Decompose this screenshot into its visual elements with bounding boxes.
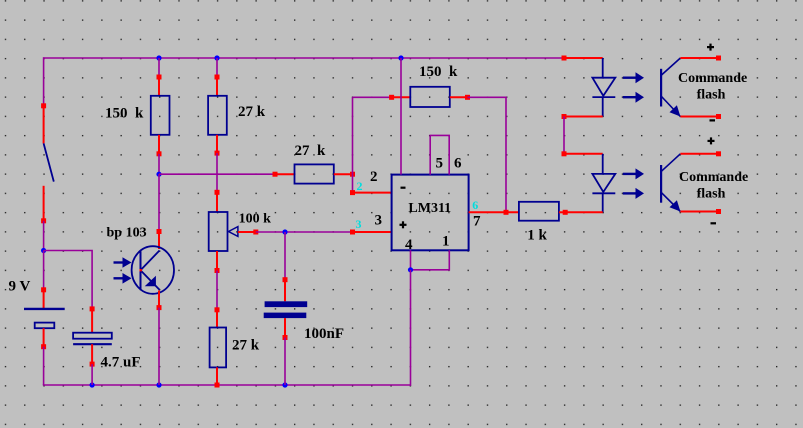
pin resistor 27k top <box>215 75 220 80</box>
switch S1 blade <box>44 143 54 181</box>
node junction collector / divider row <box>156 172 161 177</box>
pin resistor 150k top <box>157 75 162 80</box>
wire LED1 cathode lead <box>564 116 603 118</box>
wire ground column to bottom rail <box>410 270 412 386</box>
wire potentiometer top lead <box>216 192 218 212</box>
wire feedback row to 150k <box>353 96 392 98</box>
wire 27k mid right lead <box>334 173 353 175</box>
wire lower 27k bottom lead <box>216 367 218 385</box>
wire LM311 pin 8 supply stub <box>400 58 402 175</box>
wire collector node down <box>158 174 160 231</box>
resistor R4 27k mid body <box>295 164 334 183</box>
wire pin2 net vertical <box>352 97 354 192</box>
pin switch bottom <box>41 218 46 223</box>
pin resistor 27k mid right <box>350 172 355 177</box>
svg-text:Commande: Commande <box>678 71 747 86</box>
pin phototransistor emitter <box>157 305 162 310</box>
wire LED1 anode lead <box>564 57 603 59</box>
diode LED2 cathode bar <box>592 192 615 194</box>
transistor opto1 emitter stroke <box>662 97 681 117</box>
transistor opto2 base bar <box>660 165 662 203</box>
resistor R1 150k body <box>151 96 170 135</box>
wire LED2 anode lead <box>564 153 603 155</box>
wire 150k bottom lead <box>158 135 160 154</box>
svg-text:27 k: 27 k <box>238 104 266 120</box>
pin battery plus <box>41 287 46 292</box>
svg-text:3: 3 <box>375 213 383 229</box>
pin inverting input node <box>350 190 355 195</box>
wire 150k top lead <box>158 77 160 96</box>
pin resistor 150k bottom <box>157 151 162 156</box>
pin non-inverting input node <box>350 230 355 235</box>
svg-text:100nF: 100nF <box>304 326 344 342</box>
diode LED1 triangle <box>592 78 615 96</box>
wire 27k bottom lead <box>216 135 218 153</box>
wire 100nF column upper <box>284 232 286 280</box>
op-amp U1 minus mark <box>401 187 406 189</box>
wire switch top lead <box>43 106 45 144</box>
wire LM311 pin 3 lead <box>353 231 392 233</box>
transistor Q1 collector stroke <box>141 251 160 271</box>
pin capacitor 100nF top <box>283 277 288 282</box>
svg-text:150 k: 150 k <box>105 106 144 122</box>
pin resistor 1k right <box>563 210 568 215</box>
pin resistor 150k fb right <box>465 95 470 100</box>
svg-text:27 k: 27 k <box>295 143 327 159</box>
wire 4.7uF to bottom rail <box>91 364 93 385</box>
wire top supply rail <box>44 57 564 59</box>
wire node to battery plus <box>43 251 45 290</box>
light arrow upper into bp103 <box>114 261 124 263</box>
svg-text:1 k: 1 k <box>527 228 547 244</box>
svg-text:flash: flash <box>697 187 726 202</box>
wire LED1 to LED2 <box>563 117 565 154</box>
node junction non-inverting / 100nF <box>282 229 287 234</box>
capacitor C2 100nF plate top <box>265 301 308 307</box>
resistor R2 27k body <box>208 96 227 135</box>
battery B1 9V plate short <box>35 323 55 329</box>
wire left rail upper <box>43 57 45 106</box>
transistor opto2 collector stroke <box>662 154 681 171</box>
svg-text:1: 1 <box>442 234 450 250</box>
node junction pin4 / pin1 ground <box>408 267 413 272</box>
wire battery node to 4.7uF column <box>44 251 93 309</box>
wire inverting row from collector node <box>159 173 275 175</box>
wire LM311 output pin 7 <box>469 211 519 213</box>
wire emitter to bottom rail <box>158 308 160 385</box>
svg-text:9 V: 9 V <box>9 279 31 295</box>
wire 150k to collector node <box>158 154 160 174</box>
transistor Q1 emitter stroke <box>141 270 160 290</box>
wire switch bottom lead <box>43 186 45 221</box>
wire 100nF to bottom rail <box>284 338 286 386</box>
polarity label plus opto1 <box>707 46 714 48</box>
wire potentiometer bottom lead <box>216 251 218 271</box>
svg-text:3: 3 <box>356 217 362 231</box>
pin opto2 collector plus <box>716 151 721 156</box>
pin resistor 27k bottom <box>215 151 220 156</box>
wire 4.7uF top lead <box>91 309 93 333</box>
pin 27k bottom resistor lower lead on rail <box>215 383 220 388</box>
polarity label minus opto2 <box>711 222 717 224</box>
pin capacitor 4.7uF top <box>90 306 95 311</box>
diode LED2 top connector <box>602 154 604 174</box>
svg-text:6: 6 <box>454 156 462 172</box>
wire wiper lead <box>238 231 256 233</box>
pin LED2 anode <box>562 151 567 156</box>
transistor opto1 emitter arrowhead <box>670 105 681 116</box>
node junction battery / 4.7uF <box>41 248 46 253</box>
svg-text:27 k: 27 k <box>232 338 260 354</box>
node junction bottom rail / 4.7uF <box>90 382 95 387</box>
wire 27k mid left lead <box>275 173 295 175</box>
pin capacitor 100nF bottom <box>283 335 288 340</box>
polarity label plus opto2 <box>708 140 715 142</box>
light arrow lower opto2 <box>623 192 637 194</box>
pin potentiometer top <box>215 190 220 195</box>
resistor R5 150k feedback body <box>410 87 450 107</box>
wire 27k to potentiometer <box>216 153 218 192</box>
pin output node <box>504 210 509 215</box>
wire 4.7uF bottom lead <box>91 344 93 364</box>
diode LED2 triangle <box>592 174 615 192</box>
light arrow upper opto2 <box>623 173 637 175</box>
wire 150k fb right lead <box>450 96 468 98</box>
svg-text:100 k: 100 k <box>239 212 272 227</box>
pin opto1 emitter minus <box>716 114 721 119</box>
wire left rail lower <box>43 347 45 385</box>
transistor Q1 base bar <box>140 251 142 289</box>
wire opto1 collector lead <box>680 57 718 59</box>
pin resistor 150k fb left <box>389 95 394 100</box>
node junction bottom rail / 100nF <box>282 382 287 387</box>
pin potentiometer bottom <box>215 268 220 273</box>
polarity label minus opto1 <box>710 119 716 121</box>
wire non-inverting row <box>256 231 353 233</box>
wire 1k right lead <box>559 211 565 213</box>
capacitor C1 4.7uF plate top <box>73 333 112 339</box>
wire lower 27k top lead <box>216 310 218 328</box>
light arrow lower into bp103 <box>114 277 124 279</box>
svg-text:2: 2 <box>357 179 363 193</box>
wire opto2 collector lead <box>680 153 718 155</box>
wire battery minus lead <box>43 328 45 347</box>
light arrow upper opto1 <box>623 76 637 78</box>
pin battery minus <box>41 344 46 349</box>
battery B1 9V plate long <box>24 308 65 310</box>
wire LM311 pins 5-6 strap <box>430 135 449 174</box>
transistor Q1 base dot <box>140 269 142 271</box>
svg-text:flash: flash <box>697 88 726 103</box>
pin capacitor 4.7uF bottom <box>90 362 95 367</box>
transistor opto1 collector stroke <box>662 58 681 75</box>
svg-text:6: 6 <box>472 198 478 212</box>
wire phototransistor collector lead <box>158 232 160 250</box>
light arrow lower opto1 <box>623 96 637 98</box>
node junction top rail / 150k column <box>156 55 161 60</box>
svg-text:5: 5 <box>436 156 444 172</box>
transistor opto2 emitter arrowhead <box>670 200 681 211</box>
pin switch top <box>41 103 46 108</box>
svg-text:Commande: Commande <box>679 170 748 185</box>
wire 150k column top stub <box>158 58 160 77</box>
resistor R3 27k lower body <box>210 328 227 368</box>
wire switch to battery node <box>43 221 45 251</box>
wire 27k top lead <box>216 77 218 96</box>
wire LM311 pin 4 stub <box>410 250 412 269</box>
node junction bottom rail / phototransistor emitter <box>156 382 161 387</box>
wire LM311 pin 2 lead <box>353 192 392 194</box>
diode LED1 cathode bar <box>592 96 615 98</box>
wire 27k column top stub <box>216 58 218 77</box>
diode LED1 bottom connector <box>602 97 604 116</box>
wire phototransistor emitter lead <box>158 291 160 308</box>
wire opto1 emitter lead <box>680 116 718 118</box>
transistor Q1 emitter arrowhead <box>145 276 156 287</box>
svg-text:7: 7 <box>473 214 481 230</box>
wire 100nF top lead <box>284 280 286 302</box>
svg-text:bp 103: bp 103 <box>107 226 147 241</box>
pin LED1 anode on top rail <box>562 56 567 61</box>
pin opto1 collector plus <box>716 56 721 61</box>
wire battery plus lead <box>43 290 45 309</box>
wire opto2 emitter lead <box>680 211 718 213</box>
op-amp U1 plus mark <box>400 224 407 226</box>
svg-text:4.7 uF: 4.7 uF <box>101 355 141 371</box>
wire 150k fb left lead <box>392 96 411 98</box>
wire pot to lower 27k <box>216 271 218 310</box>
svg-text:2: 2 <box>370 169 378 185</box>
pin potentiometer wiper <box>253 230 258 235</box>
pin LED1 cathode <box>562 114 567 119</box>
svg-text:4: 4 <box>405 237 413 253</box>
wire LED2 cathode lead <box>565 211 603 213</box>
wire feedback to output column <box>468 97 507 212</box>
pin phototransistor collector <box>157 229 162 234</box>
diode LED1 top connector <box>602 58 604 78</box>
pin resistor 27k lower top <box>215 307 220 312</box>
svg-text:150 k: 150 k <box>419 64 458 80</box>
transistor opto1 base bar <box>660 69 662 107</box>
potentiometer P1 100k body <box>209 212 228 251</box>
potentiometer P1 wiper arrow <box>229 227 238 237</box>
capacitor C1 4.7uF plate bottom <box>73 343 112 345</box>
diode LED2 bottom connector <box>602 193 604 212</box>
pin resistor 27k mid left <box>273 172 278 177</box>
node junction top rail / LM311 pin 8 <box>398 55 403 60</box>
transistor Q1 bp103 body circle <box>132 246 174 294</box>
svg-text:LM311: LM311 <box>408 201 451 216</box>
node junction top rail / 27k column <box>214 55 219 60</box>
wire bottom ground rail <box>43 384 411 386</box>
transistor opto2 emitter stroke <box>662 193 681 212</box>
pin opto2 emitter minus <box>716 209 721 214</box>
wire 100nF bottom lead <box>284 318 286 337</box>
capacitor C2 100nF plate bottom <box>264 313 307 319</box>
wire LM311 pin 1 stub <box>411 250 450 269</box>
resistor R6 1k body <box>519 202 559 221</box>
op-amp U1 LM311 body <box>392 175 469 251</box>
